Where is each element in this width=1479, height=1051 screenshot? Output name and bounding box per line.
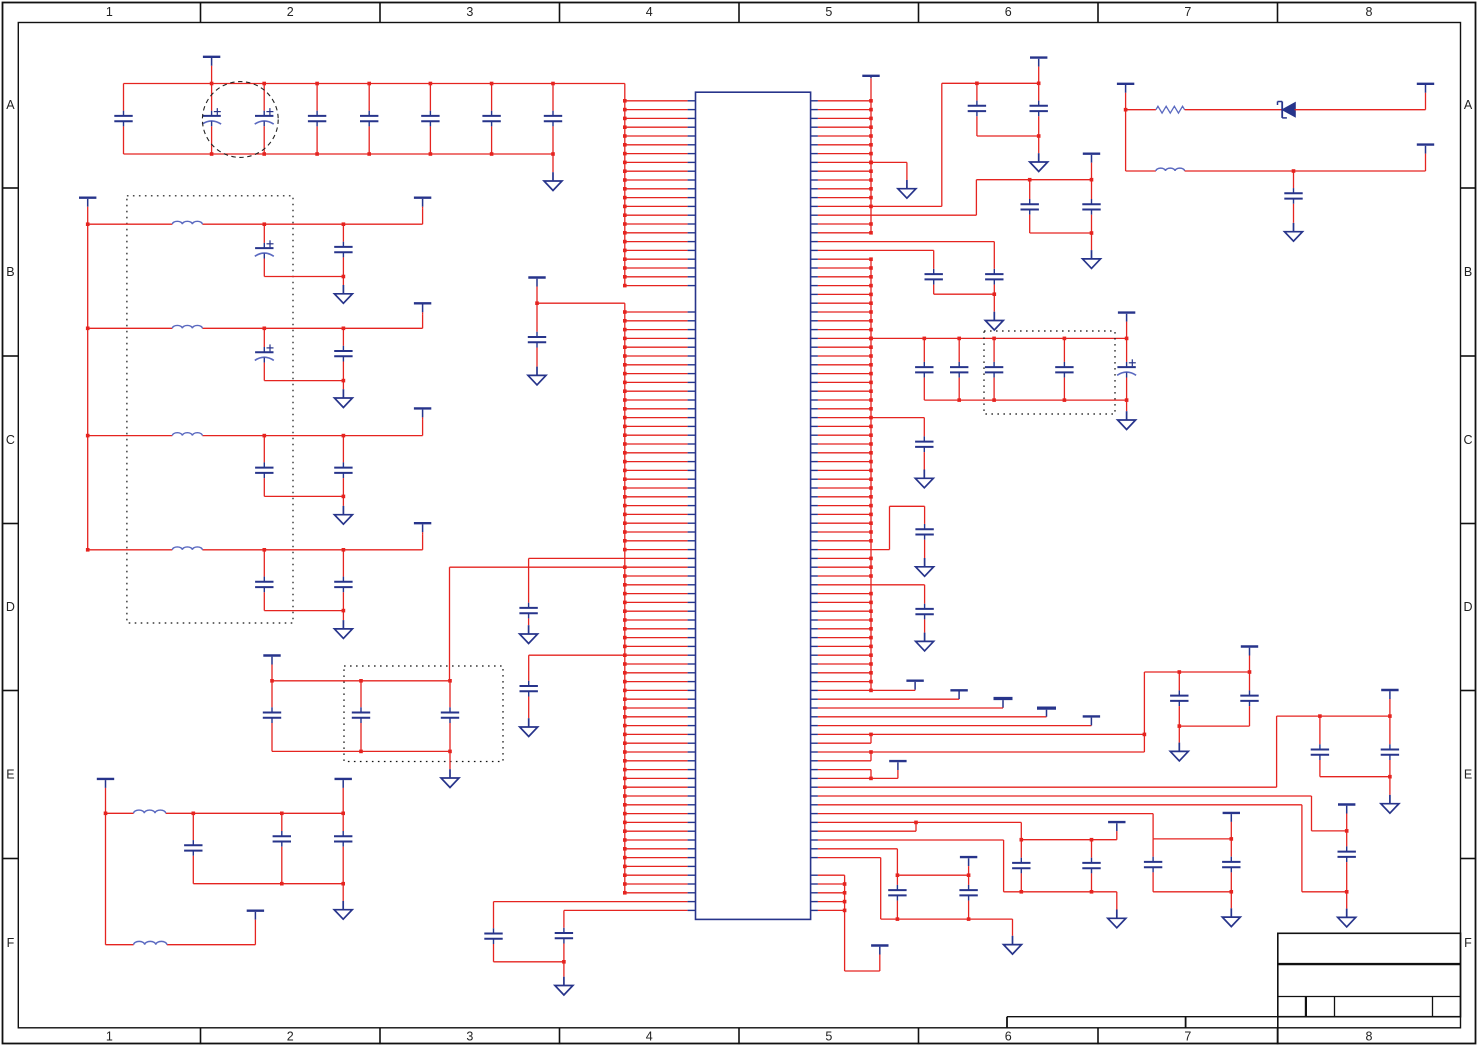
svg-text:D: D — [6, 600, 15, 614]
svg-text:E: E — [6, 768, 14, 782]
svg-text:8: 8 — [1366, 5, 1373, 19]
svg-text:1: 1 — [106, 5, 113, 19]
svg-text:E: E — [1464, 768, 1472, 782]
svg-text:3: 3 — [466, 1030, 473, 1044]
svg-text:7: 7 — [1184, 5, 1191, 19]
svg-text:2: 2 — [287, 1030, 294, 1044]
svg-text:7: 7 — [1184, 1030, 1191, 1044]
svg-text:3: 3 — [466, 5, 473, 19]
svg-text:6: 6 — [1005, 5, 1012, 19]
svg-text:B: B — [1464, 265, 1472, 279]
svg-text:4: 4 — [646, 1030, 653, 1044]
svg-text:2: 2 — [287, 5, 294, 19]
svg-text:6: 6 — [1005, 1030, 1012, 1044]
svg-text:F: F — [1464, 936, 1472, 950]
svg-text:8: 8 — [1366, 1030, 1373, 1044]
svg-text:5: 5 — [825, 1030, 832, 1044]
svg-text:A: A — [1464, 98, 1473, 112]
svg-text:C: C — [6, 433, 15, 447]
svg-text:1: 1 — [106, 1030, 113, 1044]
svg-text:5: 5 — [825, 5, 832, 19]
svg-text:D: D — [1463, 600, 1472, 614]
svg-text:C: C — [1463, 433, 1472, 447]
svg-text:4: 4 — [646, 5, 653, 19]
svg-text:B: B — [6, 265, 14, 279]
svg-text:A: A — [6, 98, 15, 112]
svg-text:F: F — [7, 936, 15, 950]
